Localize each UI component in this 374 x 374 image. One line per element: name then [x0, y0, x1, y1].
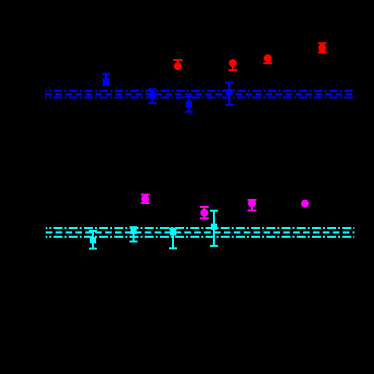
- cyan upper bound line (dash-dot): [46, 227, 355, 229]
- cyan mean line (dashed): [46, 231, 355, 233]
- magenta point M1 (circle marker with error bar): [141, 195, 150, 203]
- magenta point M3 (circle marker with error bar): [248, 199, 257, 210]
- blue point B1 (square marker with error bar): [102, 74, 110, 85]
- blue point B3 (square marker with error bar): [185, 97, 193, 112]
- cyan point C2 (square marker with error bar): [130, 227, 138, 241]
- cyan point C3 (square marker with error bar): [169, 229, 177, 249]
- magenta point M4 (circle marker): [301, 200, 309, 208]
- blue lower bound line (dash-dot): [45, 96, 354, 98]
- blue point B4 (square marker with error bar): [225, 83, 233, 105]
- cyan point C4 (square marker with error bar): [210, 211, 218, 246]
- red point R2 (circle marker with error bar): [228, 59, 237, 70]
- red point R4 (circle marker with error bar): [318, 43, 327, 52]
- blue point B2 (square marker with error bar): [148, 89, 156, 103]
- cyan lower bound line (dash-dot): [46, 236, 355, 238]
- blue mean line (dashed): [45, 93, 354, 95]
- magenta point M2 (circle marker with error bar): [200, 207, 209, 218]
- blue upper bound line (dash-dot): [45, 90, 354, 92]
- cyan point C1 (square marker with error bar): [89, 231, 97, 249]
- red point R1 (circle marker with error bar): [173, 60, 182, 70]
- red point R3 (circle marker with error bar): [263, 54, 272, 63]
